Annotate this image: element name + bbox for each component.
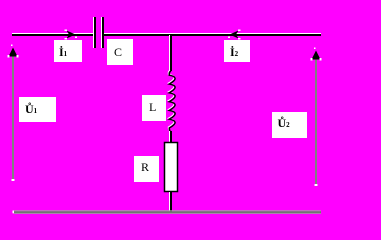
voltage arrow U2 tip highlight bbox=[315, 184, 318, 186]
label U2 bbox=[272, 112, 307, 138]
voltage arrow U2 head base accents bbox=[311, 58, 313, 61]
label C bbox=[107, 39, 133, 65]
wire middle branch upper bbox=[169, 35, 172, 71]
voltage arrow U1 head bbox=[9, 48, 18, 57]
voltage arrow U1 head base accents bbox=[8, 55, 10, 58]
label I1 bbox=[54, 40, 82, 62]
voltage arrow U2 shaft bbox=[315, 57, 317, 185]
voltage arrow U1 tip highlight bbox=[12, 179, 15, 181]
voltage arrow U1 shaft bbox=[12, 54, 14, 180]
capacitor C right plate bbox=[101, 17, 104, 48]
label I2 bbox=[224, 40, 250, 62]
wire middle branch between L and R bbox=[169, 131, 172, 142]
wire top-right segment bbox=[104, 33, 321, 36]
label U1 bbox=[19, 97, 56, 122]
label R bbox=[134, 156, 159, 182]
wire top-left segment bbox=[12, 33, 93, 36]
wire bottom bbox=[13, 210, 322, 214]
resistor R body bbox=[165, 143, 178, 192]
current arrow I1 head bbox=[65, 30, 78, 40]
current arrow I2 head bbox=[228, 30, 241, 40]
inductor L squiggle bbox=[168, 70, 175, 132]
voltage arrow U2 head bbox=[312, 51, 321, 60]
capacitor C left plate bbox=[93, 17, 96, 48]
label L bbox=[142, 95, 166, 121]
wire middle branch lower bbox=[169, 192, 172, 212]
